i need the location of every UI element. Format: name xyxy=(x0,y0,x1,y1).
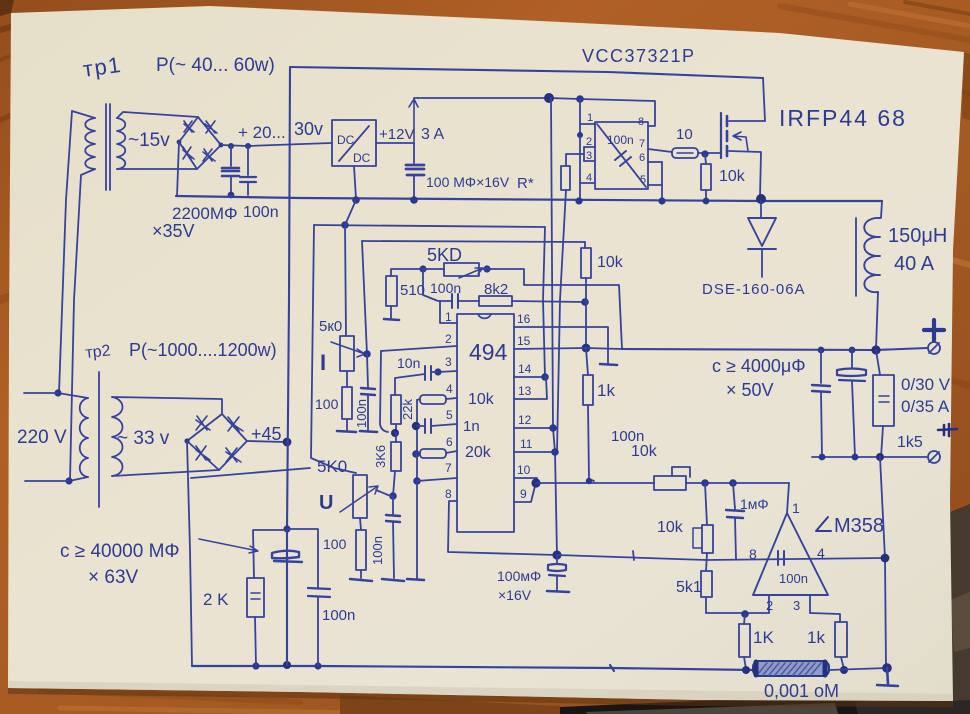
svg-text:DC: DC xyxy=(353,151,371,165)
svg-text:30v: 30v xyxy=(294,119,323,139)
wire gate resistor 10k lead xyxy=(705,154,706,164)
node dcdc ground xyxy=(352,196,360,204)
wire pin11 stub xyxy=(514,451,555,453)
svg-text:3: 3 xyxy=(793,598,800,613)
transistor Q1 body arrow xyxy=(733,132,748,151)
wire pot right to pin1 xyxy=(686,482,789,484)
wire 10k fb top xyxy=(584,242,586,248)
wire driver pin3 stub xyxy=(584,160,595,162)
wire 2200uF bottom lead xyxy=(230,177,232,195)
wire line y241 xyxy=(362,241,585,242)
node minus cap xyxy=(852,454,859,461)
resistor R* xyxy=(561,166,570,190)
wire +12V feed to driver xyxy=(414,98,655,126)
wire 100uF16 lead xyxy=(556,555,558,564)
svg-text:1n: 1n xyxy=(463,418,480,435)
wire 510 top xyxy=(391,269,423,276)
svg-text:5k1: 5k1 xyxy=(676,579,702,596)
svg-text:14: 14 xyxy=(518,362,532,376)
node 1uF tap xyxy=(729,479,737,487)
node 5K right xyxy=(483,265,490,272)
transformer T2 primary winding xyxy=(80,398,88,477)
svg-text:100n: 100n xyxy=(607,133,634,147)
svg-text:100 MΦ×16V: 100 MΦ×16V xyxy=(426,174,510,190)
svg-text:I: I xyxy=(320,350,326,375)
svg-text:3K6: 3K6 xyxy=(373,445,388,468)
svg-text:12: 12 xyxy=(518,413,532,427)
transistor Q1 channel segments xyxy=(726,116,729,156)
label LM358 angle glyph xyxy=(816,517,831,531)
svg-text:× 50V: × 50V xyxy=(726,380,774,400)
svg-text:3: 3 xyxy=(586,150,592,162)
diode B2-b xyxy=(228,417,243,431)
svg-text:20k: 20k xyxy=(465,444,492,461)
wire pin9 stub xyxy=(514,486,535,502)
wire op supply line long xyxy=(557,555,885,560)
wire 100U bottom xyxy=(360,570,362,578)
node pin15 big xyxy=(582,344,591,353)
node driver bias on rail xyxy=(575,197,582,204)
wire 510 bottom xyxy=(390,306,392,318)
resistor 510 xyxy=(386,276,397,306)
resistor 1k5 bleed xyxy=(873,375,894,426)
svg-text:тр2: тр2 xyxy=(85,342,112,362)
svg-text:5: 5 xyxy=(446,408,453,422)
wire pin16 to ground bar xyxy=(514,327,608,363)
node minus main xyxy=(876,453,884,461)
svg-text:4: 4 xyxy=(817,545,825,561)
wire U wiper to node xyxy=(376,490,393,497)
svg-text:100n: 100n xyxy=(370,536,385,565)
svg-text:P(~ 40... 60w): P(~ 40... 60w) xyxy=(156,55,275,76)
wire pin3 to right 1k xyxy=(810,613,840,622)
wire 2200uF cap lead xyxy=(230,146,232,166)
svg-text:10k: 10k xyxy=(597,254,624,271)
capacitor pin5 xyxy=(425,419,431,433)
wire node to 2k branch xyxy=(253,530,287,578)
bridge rectifier B1 diamond xyxy=(179,117,221,169)
transformer T1 secondary winding xyxy=(117,118,125,169)
wire pin12 stub xyxy=(514,427,553,429)
svg-text:220 V: 220 V xyxy=(17,427,67,448)
node U wiper net xyxy=(389,492,397,500)
wire 100n I bottom xyxy=(367,395,369,430)
wire 1k fb bottom to op wire xyxy=(588,405,594,481)
capacitor 100n I branch xyxy=(361,388,375,395)
wire pin2 net xyxy=(706,612,769,614)
wire 22k bottom xyxy=(395,424,397,433)
wire 5k1 bottom xyxy=(705,597,707,613)
svg-text:10n: 10n xyxy=(397,355,420,371)
transistor Q1 source lead xyxy=(729,151,761,197)
wire 10k to 5k1 xyxy=(706,553,707,571)
svg-text:15: 15 xyxy=(517,334,531,348)
wire branch to U-pot top xyxy=(191,468,310,478)
node 100n tap xyxy=(245,143,251,149)
ground bar 100nU xyxy=(382,579,404,581)
svg-text:R*: R* xyxy=(517,175,534,192)
wire R* feedback long down to pin11 xyxy=(557,190,566,452)
wire node to 100n branch xyxy=(287,529,318,588)
capacitor 4000uF x50V xyxy=(837,369,866,382)
node output main big xyxy=(871,345,880,354)
wire pin3 stub xyxy=(438,371,457,372)
svg-text:DSE-160-06A: DSE-160-06A xyxy=(702,281,806,298)
node driver bias mid xyxy=(577,132,583,138)
svg-text:1: 1 xyxy=(792,500,800,516)
node B1 right vertex xyxy=(219,143,224,148)
svg-text:9: 9 xyxy=(520,487,527,501)
svg-text:2: 2 xyxy=(445,332,452,346)
svg-text:1: 1 xyxy=(587,112,593,124)
wire bottom ground rail left part xyxy=(192,666,753,670)
wire +12V output xyxy=(376,142,414,144)
wire 220V bottom stub xyxy=(25,480,69,482)
svg-text:2: 2 xyxy=(766,598,773,613)
svg-text:10k: 10k xyxy=(719,168,746,185)
svg-text:2: 2 xyxy=(586,136,592,148)
wire output minus rail xyxy=(812,456,927,458)
wire 5K right lead xyxy=(479,268,487,270)
node I wiper xyxy=(363,350,371,358)
resistor 10k gate pulldown xyxy=(701,164,711,190)
svg-text:8: 8 xyxy=(638,116,644,128)
svg-text:150μH: 150μH xyxy=(888,225,947,247)
svg-text:M358: M358 xyxy=(834,515,884,537)
wire current setpoint line xyxy=(536,482,654,484)
wire I-pot bottom lead xyxy=(346,371,348,387)
svg-text:100n: 100n xyxy=(779,571,808,586)
wire 10n left to 22k xyxy=(395,374,425,395)
wire pin4 R left xyxy=(417,399,420,400)
svg-text:100: 100 xyxy=(323,536,347,552)
wire y241 down to I-wiper node xyxy=(362,241,367,354)
wire output plus rail xyxy=(622,348,927,350)
svg-text:16: 16 xyxy=(517,312,531,326)
wire pin3 stub xyxy=(809,595,811,613)
transformer T1 primary winding xyxy=(85,118,95,169)
paper bottom edge shading xyxy=(8,681,953,701)
ground bar 100U xyxy=(350,579,372,581)
capacitor 2200uF x35V xyxy=(222,168,239,176)
node pin11 xyxy=(551,448,559,456)
shunt left end cap xyxy=(754,662,759,675)
svg-text:5к0: 5к0 xyxy=(319,318,342,335)
terminal output plus xyxy=(928,342,940,354)
resistor 10 inner line xyxy=(677,152,693,154)
svg-text:0/35 A: 0/35 A xyxy=(901,397,950,416)
svg-text:6: 6 xyxy=(639,152,645,164)
shunt hatch xyxy=(757,663,821,675)
node feed at driver riser xyxy=(576,95,584,103)
wire pin7 stub xyxy=(417,478,457,481)
wire I-pot top lead xyxy=(345,225,346,336)
svg-text:1: 1 xyxy=(445,310,452,324)
IC U1 notch xyxy=(478,314,491,318)
svg-text:P(~1000....1200w): P(~1000....1200w) xyxy=(129,340,277,360)
resistor 1k fb xyxy=(583,375,593,405)
wire mid ground rail xyxy=(176,196,882,201)
node pins9-10 big xyxy=(531,478,540,487)
node shunt left outer xyxy=(742,666,750,674)
node supply at minus vertical xyxy=(881,554,890,563)
node 2200uF tap xyxy=(228,143,234,149)
capacitor 100uF x16V soft xyxy=(548,564,566,576)
wire T2 primary top lead xyxy=(58,393,88,398)
wire pin13 stub xyxy=(514,377,547,399)
wire T1 secondary top to bridge xyxy=(117,112,198,118)
wire 100uF16 bottom xyxy=(556,576,558,590)
svg-text:1k: 1k xyxy=(597,381,615,400)
resistor 22k xyxy=(391,395,401,424)
svg-text:100n: 100n xyxy=(243,204,279,221)
wire pin2 stub xyxy=(768,595,770,613)
capacitor 100n U branch xyxy=(386,515,400,522)
shunt 0.001 ohm body xyxy=(753,661,829,676)
node filter tap xyxy=(283,525,290,532)
node divider top xyxy=(701,479,709,487)
10k pot wiper hook xyxy=(672,467,690,477)
svg-text:494: 494 xyxy=(469,339,508,365)
capacitor 100n bottom left xyxy=(308,588,330,597)
wire pin4 stub xyxy=(446,398,457,399)
wire driver pin6 stub xyxy=(648,161,662,163)
wire pin8 stub down and right xyxy=(448,501,557,555)
node dt mid big xyxy=(412,422,420,430)
wire driver pins2-3 tie xyxy=(583,147,585,161)
svg-text:100n: 100n xyxy=(430,280,461,296)
wire driver bias vertical pin1 pin4 xyxy=(579,99,581,201)
resistor 10k pin4 xyxy=(420,395,446,404)
wire 100n to minus rail xyxy=(821,392,822,457)
plus symbol xyxy=(924,320,944,340)
capacitor 100n op internal xyxy=(778,551,784,565)
svg-text:4: 4 xyxy=(586,172,592,184)
wire feedback second vertical xyxy=(551,98,557,555)
svg-text:~ 33 v: ~ 33 v xyxy=(117,428,170,449)
svg-text:22k: 22k xyxy=(400,399,415,420)
wire 1k5 top lead xyxy=(876,350,880,375)
wire dt down to pin7 junction xyxy=(416,454,418,481)
wire cap5 to pin5 xyxy=(431,424,457,426)
svg-text:8: 8 xyxy=(445,487,452,501)
wire 100 bottom lead xyxy=(346,419,348,430)
node bottom rail 2k xyxy=(252,662,259,669)
svg-text:×35V: ×35V xyxy=(152,221,195,241)
node bottom rail main vertical xyxy=(283,661,291,669)
ground bar I branch xyxy=(337,431,356,432)
node feedback 8k2 xyxy=(581,298,589,306)
wire 1k fb top xyxy=(586,348,588,375)
wire 1uF bottom xyxy=(735,518,736,559)
node bottom rail 100n xyxy=(314,662,321,669)
svg-text:×16V: ×16V xyxy=(498,587,532,603)
node pin12 xyxy=(549,424,557,432)
svg-text:3: 3 xyxy=(445,355,452,369)
wire pin10 stub xyxy=(514,478,537,483)
op-amp U2 LM358 triangle xyxy=(753,513,828,595)
svg-text:1k: 1k xyxy=(807,628,825,647)
svg-text:40 A: 40 A xyxy=(894,253,935,275)
wire diode lead from switch node xyxy=(760,201,762,218)
wire left 1k bottom xyxy=(744,657,746,669)
potentiometer 10k current box xyxy=(654,476,686,490)
wire dcdc bottom lead xyxy=(354,166,356,199)
resistor 5k1 xyxy=(701,571,712,597)
wire 3k6 top xyxy=(395,433,397,442)
svg-text:3 A: 3 A xyxy=(421,126,444,143)
svg-text:IRFP44 68: IRFP44 68 xyxy=(779,105,907,131)
terminal output minus xyxy=(928,451,940,463)
ground bar 100n I xyxy=(360,431,377,432)
svg-text:100n: 100n xyxy=(354,399,369,428)
wire 100nU bottom xyxy=(393,522,394,578)
2K polarity marks xyxy=(251,593,260,599)
wire T1 primary bottom lead slanting down xyxy=(70,169,95,481)
wire B2 minus long down to bottom rail xyxy=(187,441,192,666)
wire rail corner into inductor xyxy=(881,201,882,218)
wire divider vertical xyxy=(705,483,707,525)
node shunt right outer xyxy=(840,666,848,674)
transformer T1 core xyxy=(106,104,110,190)
svg-text:8k2: 8k2 xyxy=(484,281,508,298)
wire 10n to pin3 node xyxy=(431,371,438,373)
wire pin14 stub xyxy=(514,376,545,378)
resistor 2K xyxy=(247,578,264,617)
node 220V top xyxy=(54,389,61,396)
ground symbol xyxy=(877,668,898,686)
arrow pointer to 40000uF cap xyxy=(199,539,258,553)
wire pin6 stub xyxy=(446,451,457,453)
diode B1-b xyxy=(205,121,217,133)
wire cap bottom lead xyxy=(413,176,415,199)
ground bar 510 xyxy=(384,319,399,320)
U-pot wiper arrow xyxy=(340,486,378,512)
wire ref down to pins13-14 xyxy=(543,227,545,377)
node pin2 at 1k xyxy=(741,610,749,618)
node 2200uF on rail xyxy=(228,192,235,199)
wire T1 primary top lead xyxy=(72,111,95,118)
svg-text:2 K: 2 K xyxy=(203,590,229,609)
svg-text:13: 13 xyxy=(518,384,532,398)
wire 2k bottom lead xyxy=(255,617,256,666)
ground bar pin16 xyxy=(600,364,617,365)
svg-text:c ≥ 40000 MΦ: c ≥ 40000 MΦ xyxy=(60,541,180,562)
wire 10k to rail xyxy=(705,190,707,200)
node output cap xyxy=(849,347,856,354)
resistor 10 gate series xyxy=(672,148,698,158)
1k5 polarity marks xyxy=(879,396,889,402)
wire T2 secondary top to bridge xyxy=(112,397,222,414)
diode B2-a xyxy=(196,416,210,430)
svg-text:0/30 V: 0/30 V xyxy=(901,375,951,394)
wire 100n bottom lead xyxy=(317,597,319,666)
wire T2 secondary bottom to bridge xyxy=(112,470,219,476)
node 220V bottom xyxy=(65,477,72,484)
ground bar 100uF16 xyxy=(547,591,569,592)
svg-text:11: 11 xyxy=(520,437,533,451)
svg-text:100мΦ: 100мΦ xyxy=(497,568,541,584)
capacitor 1uF xyxy=(726,510,744,518)
wire diode anode lead xyxy=(761,249,763,277)
svg-text:~15v: ~15v xyxy=(128,130,170,151)
wire cap to 8k2 xyxy=(458,300,479,302)
svg-text:100n: 100n xyxy=(322,607,355,624)
wire +12V riser with arrow xyxy=(409,99,418,143)
5K wiper arrow xyxy=(459,268,483,278)
wire 1uF lead xyxy=(733,483,735,509)
resistor 100 under U-pot xyxy=(356,530,366,570)
scribble mark near 1k5 xyxy=(938,424,957,436)
resistor 1k right xyxy=(835,622,847,657)
node switch big xyxy=(756,194,766,204)
wire cap40000 top lead xyxy=(286,529,288,551)
svg-text:DC: DC xyxy=(337,133,355,147)
wire pin1 riser xyxy=(440,301,457,323)
wire pin2 vertical with hook xyxy=(380,351,388,432)
svg-text:10k: 10k xyxy=(631,443,658,460)
node ground big xyxy=(882,663,892,673)
node 10k ground xyxy=(703,198,710,205)
wire 220V top stub xyxy=(24,392,58,394)
diode B1-c xyxy=(183,147,194,159)
IC U1 494 box xyxy=(457,314,514,532)
svg-text:1k5: 1k5 xyxy=(897,434,923,451)
potentiometer 5K0 U box xyxy=(353,475,367,518)
capacitor 100n pin1 xyxy=(452,294,458,308)
node +45 xyxy=(283,438,292,447)
wire pin15 stub xyxy=(514,348,586,349)
svg-text:10k: 10k xyxy=(657,519,684,536)
transistor Q1 drain lead xyxy=(729,120,765,122)
svg-text:4: 4 xyxy=(446,382,453,396)
inductor L1 core line xyxy=(855,218,857,296)
wire output cap lead xyxy=(851,350,853,368)
shunt right end cap xyxy=(823,662,828,675)
node pin7 junction xyxy=(413,477,421,485)
transformer T2 secondary winding xyxy=(112,397,123,476)
wire driver pin1 stub xyxy=(580,123,595,125)
driver internal diagonal xyxy=(597,124,646,187)
wire rail through shunt right xyxy=(829,668,887,670)
svg-text:+ 20...: + 20... xyxy=(238,123,286,142)
node pin3 xyxy=(434,368,441,375)
node output 100n xyxy=(818,347,825,354)
svg-text:+12V: +12V xyxy=(379,126,414,143)
svg-text:× 63V: × 63V xyxy=(88,567,139,588)
resistor 8k2 xyxy=(479,296,512,306)
diode B2-c xyxy=(196,446,210,460)
wire driver pin7 to gate resistor xyxy=(648,149,672,152)
capacitor 40000uF x63V xyxy=(272,551,302,562)
wire 100n bottom lead xyxy=(247,183,249,195)
diode B1-d xyxy=(203,149,215,161)
wire node to output rail corner xyxy=(586,348,622,349)
wire cap5 left xyxy=(417,425,425,427)
wire pin2 stub long xyxy=(381,346,457,351)
wire output 100n lead xyxy=(820,350,822,383)
wire main left vertical bus xyxy=(287,67,290,665)
wire driver pin5 stub xyxy=(648,184,662,186)
dcdc slash xyxy=(339,126,369,161)
wire 10 to gate xyxy=(698,152,721,154)
wire T2 primary bottom lead xyxy=(69,477,88,481)
svg-text:5KD: 5KD xyxy=(427,245,462,265)
svg-text:510: 510 xyxy=(400,282,425,299)
I-pot wiper arrow xyxy=(331,342,365,357)
wire inductor output lead xyxy=(876,292,878,349)
svg-text:5: 5 xyxy=(640,174,646,186)
